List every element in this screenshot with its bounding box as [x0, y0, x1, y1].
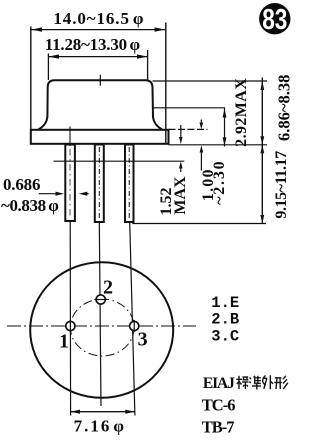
- page number badge 83: [259, 3, 290, 34]
- svg-text:EIAJ: EIAJ: [203, 375, 235, 392]
- lead 3 centerline: [128, 147, 130, 219]
- svg-text:6.86~8.38: 6.86~8.38: [275, 75, 294, 141]
- lead 1 (front view): [65, 145, 75, 222]
- kanji JUN: [249, 376, 261, 390]
- kanji GAI: [263, 375, 273, 389]
- svg-text:11.28~13.30φ: 11.28~13.30φ: [45, 35, 141, 54]
- arrow above flange-top (1.00~2.30 upper): [200, 120, 204, 130]
- extension line lead-end to right dims: [132, 223, 266, 225]
- svg-text:~2.30: ~2.30: [211, 160, 228, 205]
- can top centerline tick: [99, 75, 101, 86]
- dimension line 2.92MAX: [223, 109, 227, 147]
- dimension line 7.16: [70, 410, 134, 414]
- pin 3: [130, 321, 139, 330]
- package outline circle (bottom view): [30, 262, 173, 398]
- extension line right (flange edge, right): [165, 23, 167, 145]
- lead 3 (front view): [125, 145, 134, 223]
- extension line can-top right: [147, 50, 149, 81]
- pin pitch circle (dash-dot): [70, 299, 134, 356]
- kanji HYOU: [236, 376, 248, 389]
- lead 2 (front view): [95, 145, 104, 223]
- svg-text:MAX: MAX: [172, 176, 189, 215]
- svg-text:3.C: 3.C: [211, 327, 239, 345]
- projection line lead 2 to pin 2 (centerline): [99, 222, 101, 406]
- pin 1: [66, 321, 75, 330]
- projection line lead 3 to pin 3: [130, 222, 135, 416]
- transistor can outline (front view): [39, 80, 163, 129]
- svg-text:9.15~11.17: 9.15~11.17: [273, 151, 290, 219]
- svg-text:2.92MAX: 2.92MAX: [233, 78, 250, 147]
- svg-text:1: 1: [59, 331, 69, 353]
- extension line flange-top to right (for 1.00~2.30): [169, 128, 208, 130]
- svg-text:TB-7: TB-7: [202, 418, 235, 437]
- dimension line 11.28~13.30: [48, 54, 147, 58]
- arrow through flange (1.52MAX upper): [179, 125, 183, 144]
- svg-text:7.16φ: 7.16φ: [74, 416, 126, 435]
- svg-text:0.686: 0.686: [3, 175, 40, 194]
- extension line flange-bottom to right dims: [169, 144, 268, 146]
- projection line lead 1 to pin 1: [69, 221, 71, 416]
- dimension line 6.86~8.38 / 9.15~11.17: [260, 78, 264, 224]
- svg-text:~0.838φ: ~0.838φ: [1, 196, 59, 215]
- kanji KEI: [274, 376, 288, 389]
- svg-text:3: 3: [138, 329, 148, 351]
- horizontal centerline (bottom view): [7, 325, 196, 327]
- arrow below flange-bottom (1.00~2.30 lower) + leader: [200, 145, 204, 170]
- pin 2: [96, 295, 105, 304]
- extension line left (flange edge, left): [30, 27, 32, 130]
- svg-text:2: 2: [103, 277, 113, 299]
- flange (front view): [31, 130, 169, 144]
- lead 1 centerline: [69, 127, 71, 147]
- lead shoulder line (1.52MAX lower edge): [54, 160, 185, 162]
- leader lead-diameter right arrow: [79, 192, 89, 196]
- svg-text:14.0~16.5φ: 14.0~16.5φ: [53, 9, 144, 28]
- svg-text:1.E: 1.E: [211, 294, 239, 312]
- leader lead-diameter left arrow: [39, 192, 64, 196]
- extension line cap shoulder (2.92MAX top): [153, 107, 225, 109]
- extension line can-top left: [47, 54, 49, 81]
- arrow below shoulder line (1.52MAX lower): [179, 161, 183, 172]
- lead 2 centerline: [98, 147, 100, 219]
- svg-text:2.B: 2.B: [211, 311, 239, 329]
- extension line can-top to right dims: [153, 80, 268, 82]
- kanji 標準外形 (drawn strokes): [236, 375, 287, 389]
- svg-text:TC-6: TC-6: [202, 395, 235, 414]
- dimension line 14.0~16.5: [31, 27, 165, 31]
- svg-text:83: 83: [262, 2, 287, 35]
